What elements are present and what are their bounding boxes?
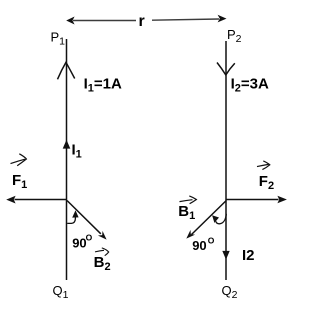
- svg-text:B2: B2: [94, 254, 111, 273]
- svg-text:P1: P1: [51, 30, 66, 48]
- vector hat over B1: [180, 196, 197, 204]
- svg-text:90: 90: [72, 235, 86, 250]
- svg-text:I2=3A: I2=3A: [231, 76, 269, 95]
- svg-text:I2: I2: [242, 247, 255, 264]
- svg-text:P2: P2: [227, 27, 242, 45]
- angle marker 90 deg at wire 2: [212, 214, 226, 224]
- angle marker 90 deg at wire 1: [67, 210, 78, 223]
- svg-text:F2: F2: [259, 173, 274, 192]
- field arrow B2 (diagonal down-right from wire 1): [67, 201, 107, 240]
- svg-text:I1=1A: I1=1A: [84, 75, 122, 94]
- svg-text:O: O: [86, 232, 93, 242]
- svg-text:F1: F1: [12, 172, 27, 191]
- force arrow F2 (points right): [226, 196, 287, 204]
- svg-text:B1: B1: [178, 203, 195, 222]
- svg-text:Q1: Q1: [53, 283, 69, 301]
- current arrow I2 on wire 2: [222, 251, 229, 260]
- vector hat over F2: [257, 161, 270, 170]
- dimension arrow r right segment: [152, 15, 227, 23]
- current direction chevron up on wire 1: [58, 62, 75, 79]
- svg-text:I1: I1: [72, 142, 82, 161]
- svg-text:90: 90: [192, 238, 206, 253]
- svg-text:r: r: [139, 13, 145, 30]
- vector hat over B2: [95, 248, 109, 256]
- svg-text:O: O: [208, 235, 215, 245]
- vector hat over F1: [11, 154, 27, 166]
- wire 2 (right conductor P2-Q2): [225, 41, 227, 280]
- field arrow B1 (diagonal down-left from wire 2): [186, 201, 226, 239]
- svg-text:Q2: Q2: [222, 283, 238, 301]
- current direction chevron down on wire 2: [217, 63, 235, 76]
- wire 1 (left conductor P1-Q1): [66, 39, 68, 280]
- dimension arrow r left segment: [66, 17, 136, 25]
- current arrow I1 on wire 1: [63, 140, 71, 149]
- force arrow F1 (points left): [6, 196, 66, 204]
